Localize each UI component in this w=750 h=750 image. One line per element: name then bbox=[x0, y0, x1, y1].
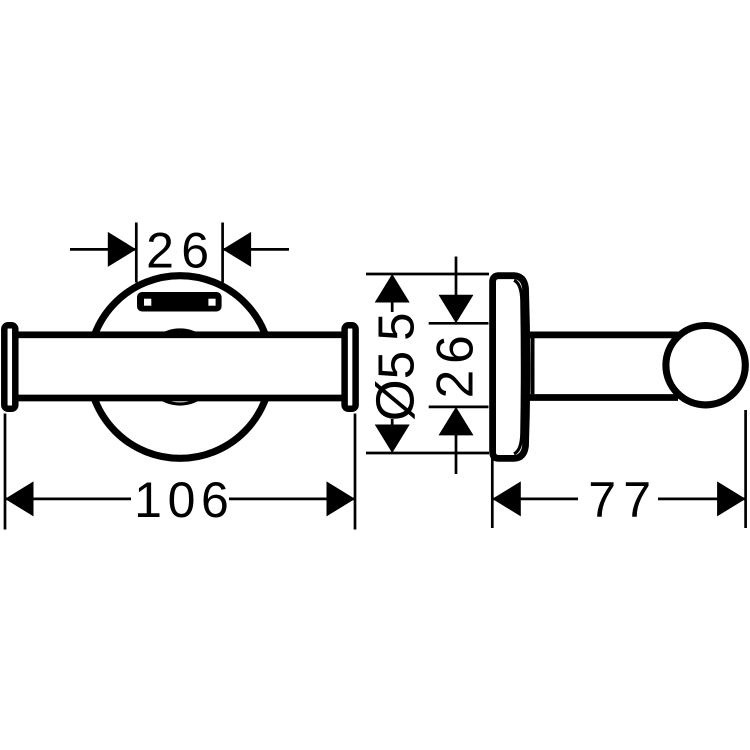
arrow down to top edge bbox=[439, 295, 474, 324]
slot hole left bbox=[144, 299, 151, 306]
mounting slot bbox=[137, 292, 222, 312]
arrow left (points right) bbox=[108, 232, 137, 267]
arrow down bbox=[375, 425, 410, 454]
dimension 106 (bottom) bbox=[5, 414, 355, 530]
arrow up bbox=[375, 274, 410, 303]
dim line left bbox=[492, 498, 578, 501]
dim line left bbox=[70, 248, 136, 251]
extension line right bbox=[744, 410, 747, 528]
arrow right (points right) bbox=[717, 481, 746, 516]
extension line top bbox=[429, 322, 489, 325]
arrow right (points right) bbox=[327, 481, 356, 516]
dimension D55 (left of side view) bbox=[366, 274, 489, 453]
dimension 77 (bottom of side view) bbox=[492, 410, 745, 528]
hook arm top line bbox=[529, 332, 678, 339]
svg-text:2: 2 bbox=[425, 370, 483, 399]
extension line top bbox=[366, 273, 489, 276]
svg-text:77: 77 bbox=[588, 472, 658, 528]
label 26 (rotated) bbox=[425, 335, 483, 398]
hook arm bottom line bbox=[529, 394, 678, 401]
dimension 26 (top) bbox=[70, 223, 289, 283]
dim line left bbox=[5, 498, 131, 501]
wall plate outer circle bbox=[89, 276, 272, 459]
hook bar bbox=[8, 335, 352, 398]
wall plate side profile bbox=[493, 276, 527, 459]
dim line right bbox=[223, 248, 289, 251]
arrow up to bottom edge bbox=[439, 407, 474, 436]
extension line bottom bbox=[429, 406, 489, 409]
extension line right bbox=[354, 414, 357, 530]
dimension 26 (side view) bbox=[429, 257, 489, 475]
svg-text:26: 26 bbox=[146, 223, 216, 279]
extension line left bbox=[135, 223, 138, 283]
dim line right bbox=[658, 498, 746, 501]
arrow left (points left) bbox=[492, 481, 521, 516]
label D55 (rotated) bbox=[365, 313, 425, 422]
svg-text:Ø: Ø bbox=[365, 379, 425, 421]
extension line left bbox=[4, 414, 7, 530]
right end cap bbox=[345, 325, 356, 409]
arrow right (points left) bbox=[223, 232, 252, 267]
arrow left (points left) bbox=[5, 481, 34, 516]
plate dome face line bbox=[514, 280, 522, 454]
extension line bottom bbox=[366, 452, 489, 455]
left end cap bbox=[4, 325, 15, 409]
dim line bottom stub bbox=[391, 419, 394, 426]
svg-text:5: 5 bbox=[367, 313, 424, 341]
slot hole right bbox=[208, 299, 215, 306]
dim line below bbox=[455, 435, 458, 475]
dim line top stub bbox=[391, 301, 394, 312]
wall plate inner circle bbox=[143, 330, 217, 404]
dim line above bbox=[455, 257, 458, 296]
dim line right bbox=[229, 498, 355, 501]
extension line left bbox=[491, 456, 494, 528]
extension line right bbox=[221, 223, 224, 283]
svg-text:106: 106 bbox=[134, 472, 234, 528]
neck line at plate junction bbox=[531, 338, 535, 394]
svg-text:5: 5 bbox=[367, 351, 424, 379]
ball end bbox=[666, 326, 745, 405]
svg-text:6: 6 bbox=[425, 335, 483, 364]
